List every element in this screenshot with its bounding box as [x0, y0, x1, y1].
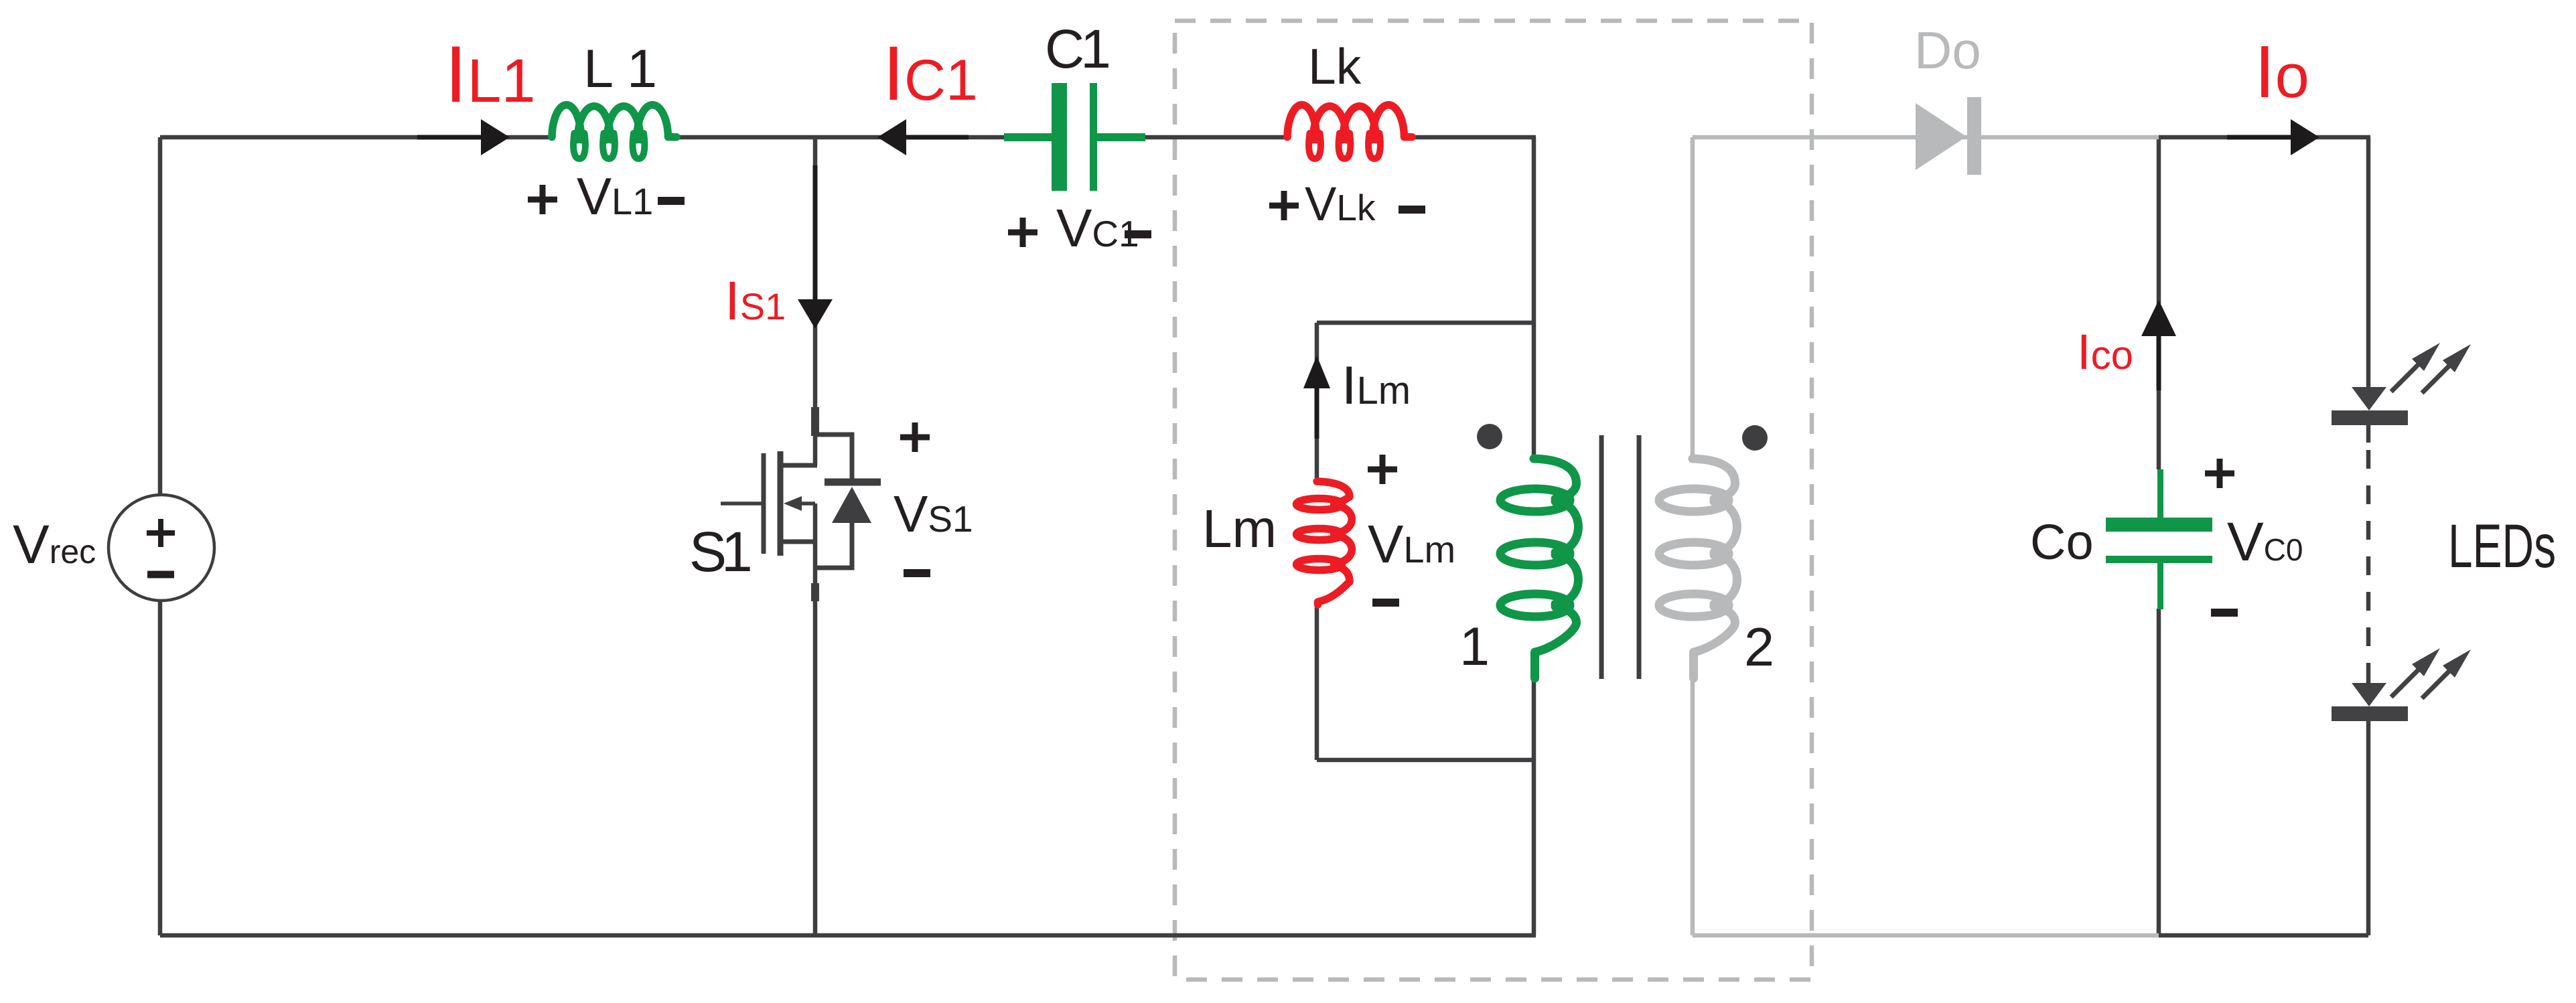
svg-text:S1: S1 — [689, 520, 750, 583]
svg-text:Do: Do — [1914, 21, 1981, 80]
svg-text:Io: Io — [2255, 31, 2309, 113]
svg-text:2: 2 — [1744, 617, 1774, 678]
svg-text:1: 1 — [1459, 617, 1490, 677]
svg-text:LEDs: LEDs — [2448, 512, 2556, 581]
svg-text:Lk: Lk — [1308, 38, 1362, 94]
svg-text:C1: C1 — [1045, 19, 1108, 80]
svg-text:Co: Co — [2030, 514, 2094, 570]
svg-text:L1: L1 — [583, 39, 670, 99]
svg-text:Lm: Lm — [1202, 499, 1277, 558]
svg-text:Ico: Ico — [2077, 324, 2133, 380]
